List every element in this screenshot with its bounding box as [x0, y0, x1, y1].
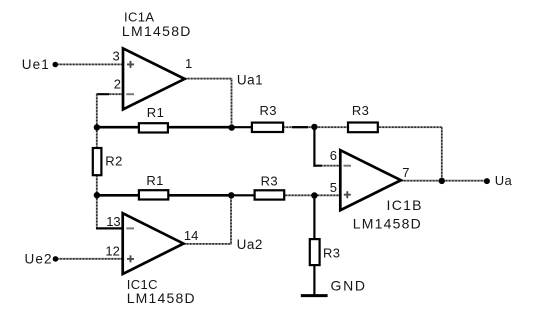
- wire lower row black segment 3: [231, 194, 255, 196]
- svg-text:6: 6: [330, 148, 337, 163]
- wire lower row grey span: [231, 194, 340, 196]
- wire IC1B output to Ua: [401, 180, 487, 182]
- svg-text:14: 14: [184, 228, 198, 243]
- svg-text:5: 5: [330, 180, 337, 195]
- svg-text:LM1458D: LM1458D: [122, 23, 192, 39]
- svg-text:R2: R2: [105, 154, 122, 169]
- wire lower row black segment 2: [168, 194, 233, 197]
- node Ue1 port dot: [53, 62, 59, 68]
- wire top row black segment 4: [292, 126, 308, 128]
- junction node R3-R3 pin6: [311, 124, 317, 130]
- svg-text:Ue1: Ue1: [22, 57, 50, 72]
- wire pin 13 stub: [96, 227, 122, 229]
- op-amp U1 IC1A: [123, 48, 185, 109]
- ground: [301, 294, 328, 297]
- svg-text:Ue2: Ue2: [25, 252, 53, 267]
- wire lower row black segment 1: [97, 194, 139, 197]
- junction node output: [439, 178, 445, 184]
- node Ue2 port dot: [53, 256, 59, 262]
- svg-text:LM1458D: LM1458D: [353, 215, 422, 231]
- svg-text:R3: R3: [323, 245, 340, 260]
- wire R3 gnd to ground: [313, 266, 315, 296]
- svg-text:R1: R1: [146, 173, 163, 188]
- resistor R1 lower: [139, 190, 168, 199]
- resistor R2: [93, 148, 102, 175]
- svg-text:LM1458D: LM1458D: [127, 290, 196, 306]
- resistor R3 top second: [348, 123, 378, 133]
- wire top row grey span: [232, 126, 442, 128]
- svg-text:1: 1: [185, 56, 192, 71]
- wire IC1A feedback vertical: [96, 94, 98, 127]
- resistor R3 lower: [255, 190, 285, 199]
- wire Ue2 to pin 12: [57, 258, 123, 260]
- svg-text:3: 3: [113, 48, 120, 63]
- wire right vertical to output node: [441, 127, 443, 181]
- svg-text:Ua1: Ua1: [237, 72, 263, 87]
- wire Ue1 to pin 3: [57, 63, 123, 65]
- svg-text:7: 7: [402, 165, 409, 180]
- svg-text:R3: R3: [261, 174, 278, 189]
- resistor R1 top: [139, 123, 168, 132]
- wire pin 2 stub: [97, 93, 123, 95]
- svg-text:Ua2: Ua2: [237, 237, 263, 252]
- svg-text:2: 2: [114, 77, 121, 92]
- svg-text:GND: GND: [331, 278, 367, 294]
- svg-text:R1: R1: [147, 105, 164, 120]
- wire IC1A output to Ua1 corner: [185, 79, 232, 128]
- svg-text:R3: R3: [352, 103, 369, 118]
- junction node Ua1-R1-R3: [229, 124, 235, 130]
- junction node R1R2 top: [94, 124, 100, 130]
- wire vertical through R2: [96, 127, 98, 195]
- wire top row black segment 2: [168, 126, 234, 129]
- svg-text:Ua: Ua: [495, 173, 513, 188]
- wire pin 6 stub: [313, 165, 340, 167]
- junction node pin5-R3gnd: [311, 192, 317, 198]
- resistor R3 gnd: [310, 239, 320, 265]
- node Ua port dot: [484, 178, 490, 184]
- svg-text:IC1B: IC1B: [387, 197, 423, 213]
- wire junction to R3 gnd: [313, 195, 315, 238]
- svg-text:R3: R3: [260, 103, 277, 118]
- junction node R1R2 lower: [94, 192, 100, 198]
- svg-text:13: 13: [106, 214, 120, 229]
- svg-text:12: 12: [105, 244, 119, 259]
- resistor R3 top first: [252, 123, 283, 132]
- op-amp U3 IC1C: [123, 213, 184, 274]
- wire IC1C output to Ua2 corner: [184, 195, 232, 244]
- wire top row black segment 3: [232, 126, 252, 128]
- wire IC1C feedback vertical: [96, 195, 98, 228]
- wire top row black segment 1: [97, 126, 139, 129]
- wire pin 6 vertical: [313, 127, 315, 167]
- op-amp U2 IC1B: [340, 150, 401, 210]
- junction node Ua2-R1-R3: [228, 192, 234, 198]
